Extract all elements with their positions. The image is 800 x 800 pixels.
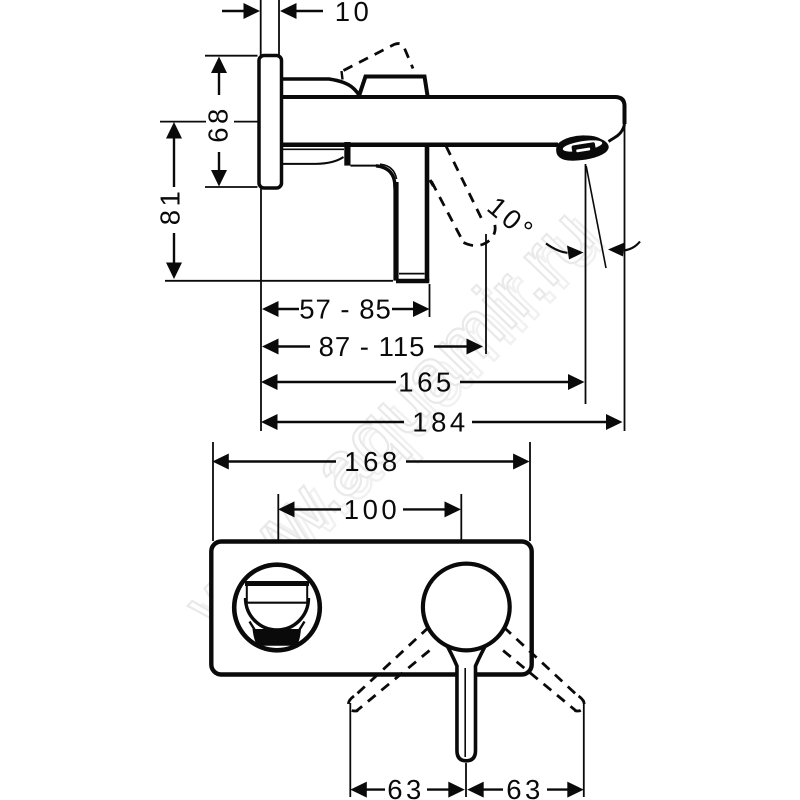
svg-text:63: 63 xyxy=(506,774,544,800)
svg-text:165: 165 xyxy=(398,367,454,398)
svg-text:81: 81 xyxy=(155,188,186,226)
svg-text:57 - 85: 57 - 85 xyxy=(299,294,392,325)
svg-text:87 - 115: 87 - 115 xyxy=(319,331,426,362)
svg-text:168: 168 xyxy=(344,446,400,477)
svg-text:68: 68 xyxy=(203,105,234,143)
svg-text:184: 184 xyxy=(412,407,468,438)
svg-text:100: 100 xyxy=(344,494,400,525)
svg-text:10: 10 xyxy=(335,0,373,27)
svg-text:63: 63 xyxy=(387,774,425,800)
